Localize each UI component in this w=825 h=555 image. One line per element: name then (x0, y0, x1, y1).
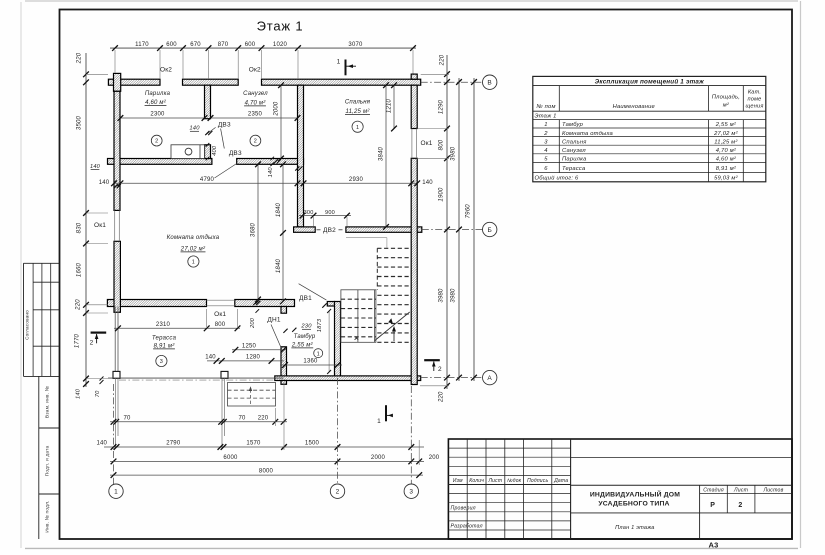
svg-text:Ок2: Ок2 (249, 67, 261, 74)
svg-text:1020: 1020 (273, 42, 288, 48)
svg-text:1500: 1500 (305, 441, 320, 447)
svg-text:Кат.: Кат. (748, 90, 761, 96)
svg-text:220: 220 (76, 299, 82, 311)
svg-text:140: 140 (76, 388, 82, 399)
svg-text:70: 70 (95, 390, 101, 397)
svg-text:900: 900 (325, 210, 335, 216)
svg-text:140: 140 (205, 354, 216, 360)
svg-text:1570: 1570 (246, 441, 261, 447)
svg-text:1: 1 (356, 125, 359, 131)
svg-text:Спальня: Спальня (562, 139, 587, 145)
svg-text:УСАДЕБНОГО ТИПА: УСАДЕБНОГО ТИПА (598, 501, 669, 508)
svg-text:Взам. инв. №: Взам. инв. № (45, 386, 51, 418)
svg-text:1: 1 (337, 59, 341, 66)
svg-text:Лист: Лист (488, 478, 503, 484)
svg-text:ДВ1: ДВ1 (299, 295, 312, 302)
svg-text:ИНДИВИДУАЛЬНЫЙ ДОМ: ИНДИВИДУАЛЬНЫЙ ДОМ (590, 489, 680, 498)
svg-text:Парилка: Парилка (145, 91, 171, 97)
svg-text:Ок1: Ок1 (94, 222, 106, 229)
svg-text:Общий итог: 6: Общий итог: 6 (535, 174, 579, 181)
svg-text:В: В (487, 80, 492, 87)
svg-text:м²: м² (723, 103, 730, 109)
svg-text:Подпись: Подпись (527, 478, 548, 484)
svg-text:2: 2 (336, 489, 340, 496)
svg-text:1: 1 (114, 489, 118, 496)
svg-text:140: 140 (99, 180, 110, 186)
svg-text:А3: А3 (709, 541, 719, 550)
svg-text:140: 140 (268, 167, 274, 178)
svg-text:Комната отдыха: Комната отдыха (167, 235, 220, 241)
svg-text:220: 220 (77, 52, 83, 64)
svg-text:2310: 2310 (156, 322, 171, 328)
svg-text:1840: 1840 (276, 258, 282, 273)
svg-text:800: 800 (439, 139, 445, 150)
svg-text:830: 830 (77, 222, 83, 233)
svg-text:Санузел: Санузел (243, 91, 268, 97)
svg-text:поме: поме (748, 97, 762, 103)
svg-text:Наименование: Наименование (613, 104, 656, 110)
svg-text:4: 4 (544, 148, 547, 154)
svg-text:Согласовано: Согласовано (25, 310, 30, 340)
svg-text:Проверил: Проверил (451, 506, 476, 512)
svg-text:Этаж 1: Этаж 1 (257, 19, 304, 34)
svg-text:ДВ3: ДВ3 (218, 121, 231, 128)
svg-text:1210: 1210 (387, 98, 393, 113)
svg-text:№ пом: № пом (536, 104, 555, 110)
svg-text:800: 800 (215, 322, 226, 328)
svg-text:3: 3 (160, 359, 163, 365)
svg-text:3: 3 (544, 139, 548, 145)
svg-text:ДВ3: ДВ3 (229, 150, 242, 157)
svg-text:1900: 1900 (439, 187, 445, 202)
svg-text:11,25 м²: 11,25 м² (714, 139, 738, 145)
svg-text:220: 220 (439, 391, 445, 403)
svg-text:5: 5 (544, 157, 548, 163)
svg-text:1660: 1660 (77, 262, 83, 277)
svg-text:27,02 м²: 27,02 м² (713, 131, 738, 137)
svg-text:200: 200 (250, 317, 256, 329)
svg-text:6000: 6000 (223, 455, 238, 461)
svg-text:Листов: Листов (762, 488, 783, 494)
svg-text:3680: 3680 (250, 222, 256, 237)
svg-text:Парилка: Парилка (562, 157, 587, 163)
svg-text:Дата: Дата (553, 478, 568, 484)
svg-text:Комната отдыха: Комната отдыха (562, 131, 614, 137)
svg-text:Ок1: Ок1 (214, 311, 226, 318)
svg-text:870: 870 (218, 42, 229, 48)
svg-text:8,91 м²: 8,91 м² (716, 166, 737, 172)
svg-text:Терасса: Терасса (152, 335, 177, 341)
svg-text:3070: 3070 (348, 42, 363, 48)
svg-text:2,55 м²: 2,55 м² (715, 122, 737, 128)
svg-text:Колич: Колич (469, 478, 484, 484)
svg-text:Инв. № подл.: Инв. № подл. (45, 500, 51, 532)
svg-text:Санузел: Санузел (562, 148, 586, 154)
svg-text:670: 670 (190, 42, 201, 48)
svg-text:Б: Б (487, 227, 491, 234)
svg-text:2930: 2930 (349, 177, 364, 183)
svg-text:600: 600 (245, 42, 256, 48)
svg-text:1: 1 (192, 260, 195, 266)
svg-text:Разработал: Разработал (451, 524, 483, 530)
svg-text:140: 140 (90, 164, 101, 170)
svg-text:1290: 1290 (439, 99, 445, 114)
svg-text:1770: 1770 (75, 333, 81, 348)
svg-text:140: 140 (189, 126, 200, 132)
svg-text:2790: 2790 (166, 441, 181, 447)
svg-text:11,25 м²: 11,25 м² (346, 109, 371, 115)
svg-text:2: 2 (155, 139, 158, 145)
svg-text:200: 200 (429, 455, 440, 461)
svg-text:Этаж 1: Этаж 1 (535, 114, 557, 120)
svg-text:Экспликация помещений 1 этаж: Экспликация помещений 1 этаж (595, 77, 705, 85)
svg-text:1170: 1170 (135, 42, 149, 48)
svg-text:140: 140 (96, 441, 107, 447)
svg-text:3: 3 (409, 489, 413, 496)
svg-text:3500: 3500 (77, 115, 83, 130)
svg-text:2000: 2000 (274, 101, 280, 117)
svg-text:6: 6 (544, 166, 548, 172)
svg-text:8,91 м²: 8,91 м² (154, 343, 176, 349)
svg-text:70: 70 (238, 416, 246, 422)
svg-text:№док: №док (507, 478, 522, 484)
svg-text:2: 2 (438, 366, 442, 373)
svg-text:2300: 2300 (150, 112, 165, 118)
svg-text:4,60 м²: 4,60 м² (716, 157, 737, 163)
svg-text:400: 400 (212, 145, 218, 156)
svg-text:А: А (487, 375, 492, 382)
svg-text:Ок1: Ок1 (420, 140, 432, 147)
svg-text:План 1 этажа: План 1 этажа (615, 525, 654, 531)
svg-text:1873: 1873 (317, 318, 323, 332)
svg-text:1: 1 (317, 351, 320, 357)
svg-text:щения: щения (745, 104, 763, 110)
svg-text:3980: 3980 (451, 146, 457, 161)
svg-text:Лист: Лист (733, 488, 749, 494)
svg-text:2350: 2350 (248, 112, 263, 118)
svg-text:Ок2: Ок2 (160, 67, 172, 74)
svg-text:2: 2 (254, 139, 257, 145)
svg-text:2: 2 (543, 131, 548, 137)
svg-text:2: 2 (738, 502, 742, 509)
svg-text:3980: 3980 (439, 288, 445, 303)
svg-text:59,03 м²: 59,03 м² (714, 175, 738, 181)
svg-text:220: 220 (440, 54, 446, 66)
svg-text:Подп. и дата: Подп. и дата (45, 446, 51, 477)
svg-text:2,55 м²: 2,55 м² (291, 342, 314, 348)
svg-text:ДН1: ДН1 (267, 317, 280, 324)
svg-text:1360: 1360 (303, 358, 318, 364)
svg-text:Тамбур: Тамбур (562, 122, 584, 128)
svg-text:Спальня: Спальня (345, 100, 371, 106)
svg-text:4,70 м²: 4,70 м² (716, 148, 737, 154)
svg-text:3840: 3840 (379, 146, 385, 161)
svg-text:27,02 м²: 27,02 м² (180, 246, 206, 252)
svg-text:1280: 1280 (246, 354, 261, 360)
svg-text:1250: 1250 (242, 343, 257, 349)
svg-text:1: 1 (377, 418, 381, 425)
svg-text:Тамбур: Тамбур (294, 334, 316, 340)
svg-text:230: 230 (300, 324, 312, 330)
svg-text:ДВ2: ДВ2 (323, 227, 336, 234)
svg-text:2000: 2000 (371, 455, 386, 461)
svg-text:Стадия: Стадия (703, 488, 724, 494)
svg-text:1840: 1840 (276, 202, 282, 217)
svg-text:8000: 8000 (259, 469, 274, 475)
svg-text:220: 220 (258, 416, 269, 422)
svg-text:140: 140 (422, 180, 433, 186)
svg-text:2: 2 (90, 340, 94, 347)
svg-text:4790: 4790 (200, 177, 215, 183)
svg-text:1: 1 (544, 122, 547, 128)
svg-text:300: 300 (304, 210, 314, 216)
svg-text:Терасса: Терасса (562, 166, 586, 172)
svg-text:4,70 м²: 4,70 м² (245, 100, 267, 106)
svg-text:4,60 м²: 4,60 м² (145, 100, 167, 106)
svg-text:Изм: Изм (453, 478, 463, 484)
svg-text:7960: 7960 (466, 204, 472, 219)
svg-text:600: 600 (166, 42, 177, 48)
svg-text:70: 70 (123, 416, 131, 422)
svg-text:Площадь,: Площадь, (712, 95, 740, 101)
svg-text:Р: Р (710, 502, 715, 509)
svg-text:3980: 3980 (451, 288, 457, 303)
